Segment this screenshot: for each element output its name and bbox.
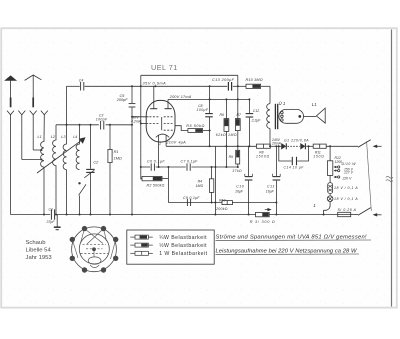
- svg-text:1: 1: [159, 142, 161, 146]
- svg-text:Si 0,25 A: Si 0,25 A: [338, 208, 357, 212]
- svg-text:C13 200μF: C13 200μF: [212, 78, 235, 82]
- svg-text:R10 3MΩ: R10 3MΩ: [246, 78, 263, 82]
- svg-text:Libelle 54: Libelle 54: [26, 247, 52, 253]
- svg-text:L1: L1: [38, 135, 42, 139]
- svg-text:100pF: 100pF: [96, 118, 108, 122]
- svg-text:C6 0,1μF: C6 0,1μF: [147, 159, 165, 163]
- svg-text:G1 220/0,8A: G1 220/0,8A: [284, 139, 309, 143]
- svg-text:1MΩ: 1MΩ: [228, 133, 237, 137]
- svg-text:18 V / 0,1 A: 18 V / 0,1 A: [334, 186, 358, 190]
- svg-text:Jahr 1953: Jahr 1953: [26, 255, 53, 261]
- svg-text:4μA: 4μA: [178, 140, 186, 144]
- svg-text:16μF: 16μF: [235, 190, 244, 194]
- svg-text:R2 500kΩ: R2 500kΩ: [147, 183, 165, 187]
- svg-text:Ω/10 W: Ω/10 W: [342, 162, 357, 166]
- svg-text:R5 50kΩ: R5 50kΩ: [186, 124, 205, 128]
- svg-text:Ströme und Spannungen mit UVA: Ströme und Spannungen mit UVA 851 Ω/V ge…: [216, 234, 367, 240]
- svg-text:1 W Belastbarkeit: 1 W Belastbarkeit: [159, 251, 207, 257]
- svg-text:C10: C10: [236, 185, 244, 189]
- svg-text:210V: 210V: [165, 140, 176, 144]
- svg-text:1500Ω: 1500Ω: [256, 155, 270, 159]
- svg-text:20mA: 20mA: [271, 142, 282, 146]
- svg-text:1: 1: [313, 203, 316, 208]
- svg-text:35V 0,9mA: 35V 0,9mA: [143, 81, 167, 85]
- svg-text:18 V / 0,1 A: 18 V / 0,1 A: [334, 197, 358, 201]
- svg-text:C1: C1: [49, 208, 54, 212]
- svg-text:4,2mA: 4,2mA: [131, 119, 142, 123]
- svg-text:37pF: 37pF: [47, 220, 56, 224]
- svg-text:C7 0,1μF: C7 0,1μF: [181, 159, 199, 163]
- svg-text:R1: R1: [114, 150, 119, 154]
- svg-text:R9: R9: [229, 155, 233, 159]
- svg-text:Schaub: Schaub: [26, 240, 47, 246]
- svg-text:R4: R4: [198, 180, 203, 184]
- svg-text:UEL 71: UEL 71: [151, 63, 178, 72]
- svg-text:1MΩ: 1MΩ: [196, 184, 204, 188]
- svg-text:150Ω: 150Ω: [313, 155, 324, 159]
- svg-text:100μF: 100μF: [197, 108, 209, 112]
- svg-text:Ü 1: Ü 1: [279, 101, 286, 106]
- svg-text:220 V: 220 V: [342, 177, 353, 181]
- svg-text:37kΩ: 37kΩ: [232, 169, 242, 173]
- svg-text:200V 17mA: 200V 17mA: [169, 95, 192, 99]
- svg-text:1MΩ: 1MΩ: [114, 156, 122, 160]
- svg-text:R 3/ 300 Ω: R 3/ 300 Ω: [250, 220, 276, 224]
- svg-text:2,2μF: 2,2μF: [251, 119, 262, 123]
- svg-text:R6: R6: [220, 113, 225, 117]
- svg-text:200pF: 200pF: [116, 98, 128, 102]
- svg-text:¼W Belastbarkeit: ¼W Belastbarkeit: [159, 235, 207, 241]
- svg-text:C14 10 μF: C14 10 μF: [284, 166, 305, 170]
- svg-text:½W Belastbarkeit: ½W Belastbarkeit: [159, 242, 207, 249]
- svg-text:L1: L1: [312, 102, 317, 107]
- svg-text:16μF: 16μF: [266, 190, 275, 194]
- svg-text:Leistungsaufnahme bei 220 V Ne: Leistungsaufnahme bei 220 V Netzspannung…: [216, 248, 357, 254]
- svg-text:C12: C12: [253, 109, 259, 113]
- svg-text:C4: C4: [79, 78, 84, 82]
- svg-text:C9 0,1μF: C9 0,1μF: [183, 196, 200, 200]
- svg-text:62kΩ: 62kΩ: [216, 133, 226, 137]
- svg-text:C11: C11: [267, 185, 275, 189]
- svg-text:R10: R10: [219, 198, 225, 202]
- svg-text:127 V: 127 V: [344, 170, 354, 174]
- svg-text:L4: L4: [73, 135, 77, 139]
- svg-text:200kΩ: 200kΩ: [215, 207, 228, 211]
